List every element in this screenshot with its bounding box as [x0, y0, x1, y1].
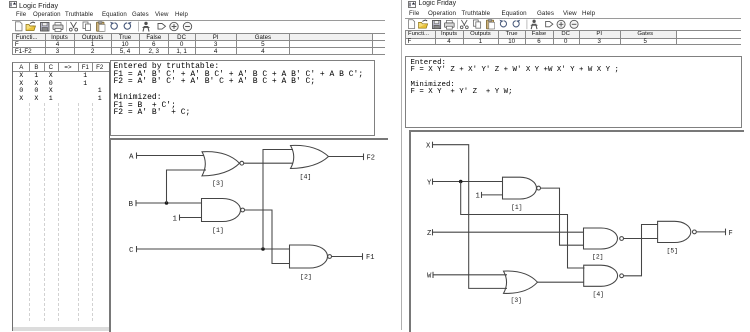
- menu separator: [12, 20, 385, 21]
- label [3]: [212, 179, 224, 186]
- constant 1 label: [173, 215, 178, 223]
- sep: [66, 21, 68, 31]
- input Z label: [427, 230, 432, 238]
- svg-text:[5]: [5]: [667, 247, 679, 254]
- header labels: [16, 34, 38, 41]
- node C junction: [261, 247, 265, 251]
- svg-text:Y: Y: [427, 179, 432, 187]
- equation panel: [110, 60, 376, 136]
- save: [41, 22, 50, 31]
- node B junction: [165, 201, 169, 205]
- open folder: [26, 26, 36, 31]
- left schematic svg: [109, 138, 386, 331]
- svg-text:[1]: [1]: [212, 226, 224, 233]
- sep: [138, 21, 140, 31]
- copy: [83, 22, 88, 29]
- output F1 tick: [362, 253, 364, 260]
- NAND gate [4]: [584, 265, 618, 286]
- svg-text:F: F: [729, 229, 733, 237]
- window left frame: [401, 0, 402, 330]
- input Z tick: [432, 229, 434, 235]
- input W label: [427, 272, 432, 280]
- svg-text:[4]: [4]: [593, 291, 605, 298]
- input B tick: [135, 200, 137, 206]
- header underline: [13, 71, 109, 72]
- menu bar: [409, 10, 419, 17]
- wire Y down to NAND4: [461, 181, 585, 268]
- title text: [419, 0, 457, 7]
- svg-text:F1: F1: [366, 254, 374, 262]
- svg-text:[2]: [2]: [300, 273, 312, 280]
- label [2]: [300, 273, 312, 280]
- NAND gate [2]: [584, 228, 618, 249]
- wire NAND2 to F1: [332, 255, 362, 257]
- svg-text:1: 1: [173, 215, 178, 223]
- output F label: [729, 229, 733, 237]
- label [1]: [511, 204, 523, 211]
- input Y tick: [432, 178, 434, 184]
- wire W to OR3: [433, 273, 507, 275]
- NAND gate [1]: [503, 177, 537, 199]
- NOR gate [3]: [202, 151, 240, 175]
- svg-text:Z: Z: [427, 230, 432, 238]
- label [5]: [667, 247, 679, 254]
- wire NAND5 to F: [697, 230, 726, 232]
- schematic panel: [109, 138, 388, 332]
- title bar icon: [9, 1, 17, 8]
- schematic panel: [409, 130, 744, 332]
- svg-text:[4]: [4]: [300, 173, 312, 180]
- wire 1 to NAND1: [482, 193, 504, 195]
- constant 1 tick: [179, 214, 181, 220]
- title bar icon: [408, 1, 416, 8]
- vertical lines: [12, 33, 13, 55]
- label [3]: [511, 297, 523, 304]
- print: [53, 25, 63, 30]
- solid column lines in header: [29, 63, 30, 71]
- wire NOR3 to OR4: [244, 162, 293, 164]
- wire B up to NOR3: [167, 170, 207, 203]
- wire Z to NAND2: [433, 231, 585, 233]
- equation panel: [405, 56, 742, 128]
- OR gate [4]: [291, 145, 329, 168]
- constant 1 label: [476, 192, 480, 200]
- row F: [15, 41, 19, 48]
- svg-text:C: C: [129, 246, 134, 254]
- svg-text:[3]: [3]: [511, 297, 523, 304]
- svg-text:X: X: [426, 142, 431, 150]
- output F2 tick: [363, 153, 365, 160]
- svg-text:B: B: [129, 200, 134, 208]
- input Y label: [427, 179, 432, 187]
- NAND gate [5]: [658, 221, 691, 242]
- menu separator: [405, 18, 742, 19]
- wire NAND2 to NAND5: [624, 237, 658, 239]
- output F1 label: [366, 254, 374, 262]
- output F tick: [725, 228, 727, 235]
- wire B to NAND1: [136, 202, 202, 204]
- wire NAND1 to NAND2: [245, 210, 290, 264]
- function grid table: [405, 30, 741, 44]
- wire X down to OR3: [433, 144, 508, 288]
- function grid table: [12, 33, 385, 55]
- right schematic svg: [411, 132, 742, 331]
- label [4]: [593, 291, 605, 298]
- undo: [111, 22, 117, 28]
- svg-text:W: W: [427, 272, 432, 280]
- menu bar: [16, 11, 26, 18]
- input B label: [129, 200, 134, 208]
- svg-text:F2: F2: [367, 154, 375, 162]
- row F1-F2: [15, 48, 32, 55]
- svg-text:[2]: [2]: [592, 253, 604, 260]
- output F2 label: [367, 154, 375, 162]
- wire C up to OR4: [263, 149, 293, 249]
- redo: [124, 22, 130, 28]
- play arrow: [158, 23, 166, 29]
- NAND gate [1]: [202, 198, 241, 221]
- NAND gate [2]: [290, 245, 328, 268]
- wire OR3 to NAND4: [537, 281, 584, 283]
- wire Y to NAND1: [433, 180, 504, 182]
- minus circle: [183, 22, 191, 30]
- wire OR4 to F2: [329, 155, 364, 157]
- header bg: [12, 33, 372, 41]
- bottom scroll strip: [13, 327, 109, 332]
- input W tick: [432, 271, 434, 277]
- input C label: [129, 246, 134, 254]
- wire NAND4 to NAND5: [624, 224, 658, 275]
- label [1]: [212, 226, 224, 233]
- title text: [19, 1, 58, 10]
- svg-text:1: 1: [476, 192, 480, 200]
- input A tick: [136, 152, 138, 158]
- truth table panel: [12, 62, 110, 332]
- plus circle: [170, 22, 178, 30]
- svg-text:[3]: [3]: [212, 179, 224, 186]
- wire C to NAND2: [137, 248, 291, 250]
- faint column lines below: [29, 103, 30, 321]
- constant 1 tick: [481, 191, 483, 197]
- toolbar: [13, 21, 203, 32]
- wire NAND1 to NAND2: [541, 188, 584, 245]
- svg-text:A: A: [129, 153, 134, 161]
- rows: [19, 72, 23, 79]
- wizard: [144, 21, 147, 24]
- input X tick: [432, 141, 434, 147]
- toolbar: [406, 19, 589, 30]
- OR gate [3]: [504, 271, 538, 293]
- input X label: [426, 142, 431, 150]
- paste: [97, 22, 105, 31]
- label [4]: [300, 173, 312, 180]
- svg-text:[1]: [1]: [511, 204, 523, 211]
- wire 1 to NAND1: [180, 216, 203, 218]
- node Y junction: [459, 179, 463, 183]
- cut: [71, 22, 77, 28]
- horizontal lines: [12, 33, 385, 34]
- input C tick: [136, 246, 138, 252]
- new: [16, 21, 23, 30]
- wire A to NOR3: [137, 154, 205, 156]
- header labels: [19, 64, 23, 71]
- input A label: [129, 153, 134, 161]
- label [2]: [592, 253, 604, 260]
